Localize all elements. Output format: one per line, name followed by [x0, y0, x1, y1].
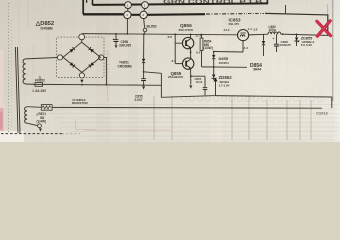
wire bottom run to the right — [43, 83, 162, 86]
stub mark — [86, 0, 88, 3]
arrow below C855 node — [142, 86, 145, 90]
capacitor C855 — [141, 79, 146, 81]
dotted vertical guide — [107, 51, 109, 103]
wire y13 to right corner — [265, 13, 328, 35]
bridge left terminal — [57, 55, 62, 60]
pin circle 2 — [142, 2, 149, 9]
wire coil2 top to resistor — [27, 106, 41, 109]
svg-text:5.8: 5.8 — [168, 35, 173, 39]
svg-text:2SA933AS: 2SA933AS — [168, 75, 183, 79]
wire long mid rail — [52, 106, 322, 109]
svg-text:4.3: 4.3 — [243, 46, 249, 50]
svg-text:(1/4W): (1/4W) — [203, 46, 213, 50]
svg-text:3.8: 3.8 — [253, 27, 258, 31]
transistor Q855 — [183, 58, 194, 69]
inductor L852 — [268, 32, 281, 34]
capacitor C856 — [114, 40, 119, 42]
wire pin3 down — [126, 19, 128, 34]
dashed bottom-left line — [1, 133, 62, 135]
junction dots bottom wire — [81, 84, 144, 86]
svg-text:6.4: 6.4 — [172, 59, 177, 63]
svg-text:10-16: 10-16 — [196, 80, 203, 84]
zener ZD855 — [296, 34, 298, 37]
junction node TH851 — [143, 71, 145, 73]
wire Q856 emitter to Q855 collector — [190, 48, 192, 59]
row2 thick line left — [83, 13, 123, 15]
scan banding — [96, 0, 110, 142]
arrow below Q855 emitter — [189, 85, 192, 88]
svg-text:+: + — [112, 38, 114, 42]
arrow below — [39, 128, 42, 131]
transistor Q856 — [182, 37, 193, 48]
wire up to bridge right — [104, 58, 107, 85]
svg-text:2200/25: 2200/25 — [280, 43, 291, 47]
arrow below bridge bottom — [80, 80, 83, 83]
diode on lower-right edge — [89, 62, 94, 67]
svg-text:21.4: 21.4 — [223, 28, 230, 32]
fuse FU852 — [35, 83, 43, 87]
bleed-through circle row — [181, 96, 266, 102]
outer corner left vertical — [82, 0, 84, 14]
capacitor C858 — [276, 34, 278, 44]
primary coil L851 top — [23, 59, 26, 84]
wire Q856 collector up — [190, 34, 192, 38]
svg-text:(1/4W): (1/4W) — [37, 119, 47, 123]
box left edge — [92, 0, 94, 5]
wire main bus — [82, 34, 238, 35]
fusible resistor R871 — [41, 105, 52, 111]
svg-text:D4SBB: D4SBB — [41, 27, 54, 31]
diode on upper-right edge — [89, 47, 94, 52]
junction dots on bus — [115, 33, 297, 35]
bead BL852 — [143, 28, 147, 32]
svg-text:2SL475: 2SL475 — [229, 22, 240, 26]
svg-text:6.4: 6.4 — [196, 50, 201, 54]
diode on upper-left edge — [69, 47, 74, 52]
row2 dash-dot continuation — [206, 13, 247, 16]
svg-text:1.1: 1.1 — [248, 27, 253, 31]
red X mark — [317, 21, 331, 36]
box right edge — [266, 0, 268, 4]
svg-text:CRD8MB: CRD8MB — [118, 64, 133, 68]
svg-text:BL852: BL852 — [147, 25, 157, 29]
diode on lower-left edge — [70, 62, 75, 67]
terminal circle — [38, 124, 42, 128]
zener ZD852 — [213, 67, 215, 74]
resistor R854 — [200, 38, 203, 51]
wire coil bottom to fuse — [26, 83, 35, 85]
svg-text:11.4: 11.4 — [196, 33, 202, 37]
wire bottom rail right — [216, 96, 332, 97]
thermistor TH851 — [142, 59, 145, 63]
row2 thick line right — [148, 13, 206, 16]
pin circle 3 — [124, 11, 131, 18]
paper background — [0, 0, 340, 142]
diode D854 — [263, 34, 265, 41]
wire branch to loop — [144, 72, 162, 74]
wire U loop — [161, 73, 215, 97]
svg-text:2SC1740S: 2SC1740S — [179, 28, 194, 32]
pin links — [128, 9, 145, 11]
capacitor C854 — [191, 76, 205, 87]
wire th851 top — [143, 34, 145, 59]
faint bleed-through grid bottom half — [50, 96, 338, 140]
wire D855 top link — [214, 41, 243, 52]
svg-text:3.7-3.9V: 3.7-3.9V — [219, 83, 231, 87]
wire pin4 down — [143, 19, 146, 28]
svg-text:FU852: FU852 — [35, 79, 45, 83]
wire base chain — [175, 34, 182, 63]
left page edge pink strips — [0, 50, 4, 110]
wire Q855 emitter down — [190, 68, 192, 85]
box bottom edge — [93, 3, 269, 5]
svg-text:330U/35: 330U/35 — [119, 43, 131, 47]
diamond wires — [63, 40, 101, 73]
svg-text:L 6A 25V: L 6A 25V — [33, 89, 48, 93]
bridge right terminal — [99, 55, 104, 60]
faint vertical streaks top — [19, 0, 48, 90]
svg-text:1S5254: 1S5254 — [219, 61, 230, 65]
svg-text:+: + — [273, 37, 275, 41]
wire coil top to bridge left — [26, 58, 58, 59]
right page border line — [332, 0, 334, 101]
pin circle 1 — [125, 2, 132, 9]
wire r854 top — [201, 35, 203, 39]
row2 thick line mid — [131, 14, 139, 16]
wire coil2 bottom — [27, 123, 38, 125]
pin circle 4 — [140, 11, 147, 18]
bridge bottom terminal — [79, 73, 84, 78]
faint bleed L-line — [76, 119, 97, 130]
dotted vertical scan line — [8, 3, 10, 132]
svg-text:0.047: 0.047 — [135, 98, 143, 102]
svg-text:RESISTOR: RESISTOR — [72, 101, 89, 105]
svg-text:9R44: 9R44 — [253, 67, 261, 71]
secondary coil — [25, 107, 27, 123]
diode D855 — [213, 52, 215, 55]
dashed enclosure — [57, 37, 105, 77]
wire rail — [202, 66, 248, 68]
svg-text:5.6-5.9V: 5.6-5.9V — [301, 43, 312, 47]
wire from box down at x285 — [285, 5, 287, 13]
bridge top terminal — [79, 34, 85, 40]
wire c856 — [115, 34, 117, 40]
regulator IC853 — [238, 29, 249, 40]
svg-text:C1012: C1012 — [316, 111, 329, 116]
svg-text:100μ: 100μ — [269, 28, 276, 32]
core lines — [15, 47, 20, 133]
faint pink bleed lines — [85, 129, 170, 131]
